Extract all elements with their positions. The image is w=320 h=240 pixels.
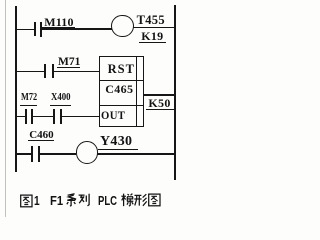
left power rail — [15, 6, 17, 172]
caption hanzi 图 (tu) first — [20, 194, 33, 208]
coil Y430 circle — [76, 141, 98, 163]
left page-edge scan artifact — [5, 0, 6, 217]
label M72 underline — [20, 105, 37, 106]
wire coil Y430 to right rail — [97, 153, 174, 155]
label K19 underline — [139, 42, 167, 43]
wire contact M71 to box RST — [54, 71, 100, 73]
wire rung3 rail to contact M72 — [16, 116, 25, 118]
box divider C465/OUT — [99, 105, 144, 107]
caption PLC — [98, 194, 117, 207]
label Y430 underline — [98, 149, 137, 150]
label M71 — [58, 57, 80, 69]
label M110 underline — [42, 27, 75, 28]
label OUT — [101, 111, 125, 123]
box divider RST/C465 — [99, 80, 144, 82]
label T455 — [137, 14, 165, 27]
caption F1 — [50, 194, 63, 207]
contact C460 bar1 — [31, 146, 33, 162]
label Y430 — [100, 135, 132, 149]
contact M110 bar1 — [34, 22, 36, 36]
wire box C465 to right rail — [144, 94, 174, 96]
caption 图1 F1系列PLC梯形图 — [0, 0, 1, 1]
contact X400 bar2 — [60, 109, 62, 123]
label K50 — [148, 97, 170, 109]
right power rail — [174, 5, 176, 180]
label M71 underline — [57, 67, 80, 68]
caption hanzi 系 (xi) — [65, 193, 78, 207]
contact X400 bar1 — [53, 109, 55, 123]
label C460 underline — [28, 140, 53, 141]
wire rung2 rail to contact M71 — [16, 71, 44, 73]
label X400 underline — [50, 105, 71, 106]
wire rung1 rail to contact M110 — [16, 29, 34, 31]
label C460 — [29, 130, 53, 141]
label M110 — [44, 16, 73, 28]
wire rung4 rail to contact C460 — [16, 153, 31, 155]
coil T455 circle — [111, 15, 134, 38]
wire contact M110 to coil T455 — [42, 28, 112, 30]
contact M72 bar2 — [31, 109, 33, 123]
label K50 underline — [146, 109, 175, 110]
contact C460 bar2 — [38, 146, 40, 162]
wire contact X400 to box OUT — [62, 116, 99, 118]
caption hanzi 形 (xing) — [134, 193, 147, 207]
label M72 — [21, 93, 37, 103]
contact M72 bar1 — [25, 109, 27, 123]
caption hanzi 列 (lie) — [78, 193, 91, 207]
caption digit 1 — [34, 194, 40, 207]
caption hanzi 梯 (ti) — [121, 193, 134, 207]
wire contact M72 to contact X400 — [33, 116, 53, 118]
box inner right vertical line — [136, 56, 137, 126]
contact M71 bar2 — [52, 64, 54, 78]
contact M71 bar1 — [44, 64, 46, 78]
label X400 — [51, 93, 71, 103]
contact M110 bar2 — [40, 22, 42, 37]
label RST — [108, 63, 135, 76]
label K19 — [141, 30, 163, 42]
caption hanzi 图 (tu) second — [148, 193, 161, 207]
label C465 — [105, 83, 133, 95]
counter function box outer — [99, 56, 144, 126]
wire coil T455 to right rail — [133, 27, 175, 29]
wire contact C460 to coil Y430 — [40, 153, 76, 155]
